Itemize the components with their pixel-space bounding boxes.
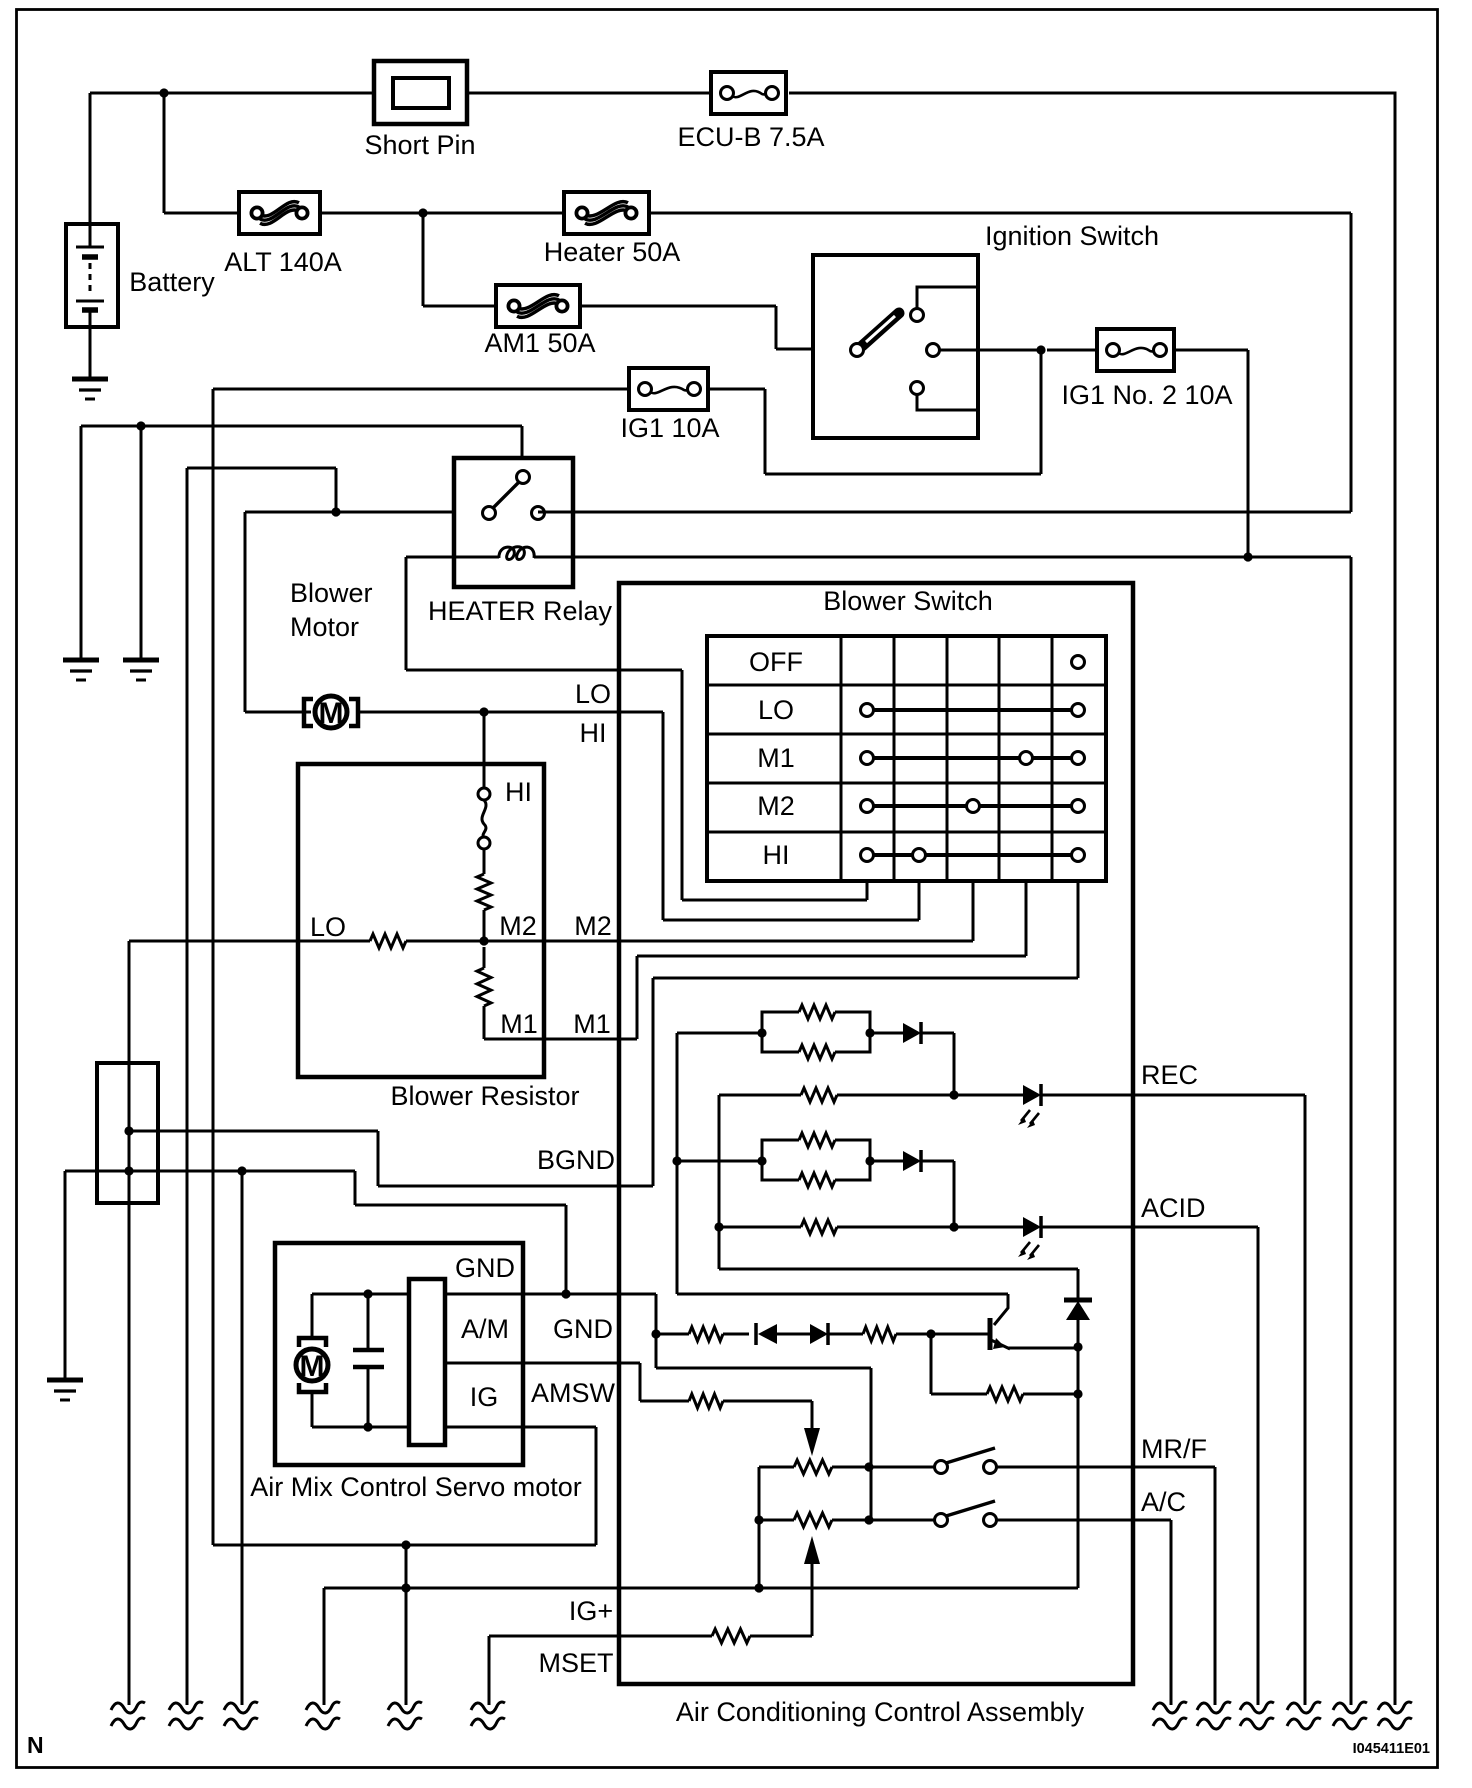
wire ignition output IG1 <box>1036 345 1045 354</box>
wire break REC <box>1287 1702 1321 1713</box>
svg-text:IG1 No. 2 10A: IG1 No. 2 10A <box>1061 380 1232 410</box>
servo internal wiring <box>312 1294 409 1427</box>
REC output row with resistor and LED <box>719 1095 1305 1705</box>
svg-text:GND: GND <box>455 1253 515 1283</box>
wire M2 row to switch column <box>484 940 973 943</box>
svg-text:OFF: OFF <box>749 647 803 677</box>
ground chassis left B <box>123 658 159 663</box>
resistor M2-M1 <box>483 947 486 968</box>
fuse AM1 50A <box>496 285 580 327</box>
wire break ground bus <box>224 1702 258 1713</box>
potentiometer temp set <box>794 1513 832 1527</box>
svg-text:M2: M2 <box>574 911 612 941</box>
svg-text:Air Mix Control Servo motor: Air Mix Control Servo motor <box>250 1472 582 1502</box>
base-emitter resistor <box>931 1334 1078 1394</box>
svg-text:Battery: Battery <box>129 267 215 297</box>
svg-text:Motor: Motor <box>290 612 359 642</box>
ACID resistor pair <box>677 1160 762 1163</box>
svg-text:HEATER Relay: HEATER Relay <box>428 596 613 626</box>
svg-text:M: M <box>300 1350 325 1383</box>
svg-text:I045411E01: I045411E01 <box>1353 1741 1430 1757</box>
ground chassis left A <box>63 658 99 663</box>
wire IG1 No.2 output to heater relay coil <box>1174 350 1248 558</box>
switch column stubs and staircase wires <box>682 881 867 900</box>
wire break MR/F <box>1197 1702 1231 1713</box>
GND diode chain to transistor base <box>656 1333 988 1336</box>
wire ground bus <box>65 1171 566 1705</box>
wire MSET row with resistor <box>489 1636 812 1705</box>
capacitor C1 <box>367 1294 370 1427</box>
wire break ACID <box>1240 1702 1274 1713</box>
svg-text:Blower Resistor: Blower Resistor <box>390 1081 579 1111</box>
servo connector <box>409 1279 445 1445</box>
wire servo A/M to AMSW <box>445 1363 640 1401</box>
svg-text:AMSW: AMSW <box>531 1378 616 1408</box>
wire BGND <box>129 1131 653 1186</box>
wire break ECU-B line <box>1378 1702 1412 1713</box>
fuse IG1 10A loop <box>213 350 1041 474</box>
wire break LO/ground splice <box>111 1702 145 1713</box>
wire break relay feed <box>169 1702 203 1713</box>
switch MR/F <box>946 1448 995 1463</box>
wire servo GND out <box>445 1294 656 1334</box>
ACID output row with resistor and LED <box>719 1227 1258 1705</box>
fuse ECU-B 7.5A <box>711 72 786 114</box>
fuse ALT 140A <box>239 192 320 234</box>
wire M1 row <box>484 1006 637 1039</box>
battery <box>66 93 118 379</box>
svg-text:MSET: MSET <box>538 1648 613 1678</box>
wire servo IG out <box>445 1427 596 1545</box>
svg-text:M1: M1 <box>573 1009 611 1039</box>
ignition switch U1 <box>813 255 1041 438</box>
svg-text:A/C: A/C <box>1141 1487 1186 1517</box>
potentiometer air mix <box>794 1460 832 1474</box>
svg-text:AM1 50A: AM1 50A <box>484 328 595 358</box>
svg-text:ALT 140A: ALT 140A <box>224 247 342 277</box>
svg-text:IG: IG <box>470 1382 499 1412</box>
wire IG1 10A to servo IG <box>212 389 215 1545</box>
svg-text:LO: LO <box>575 679 611 709</box>
wire relay coil to IG1No2 node and down <box>573 557 1351 1705</box>
heater relay K1 <box>406 458 573 587</box>
svg-text:HI: HI <box>505 777 532 807</box>
resistor LO arm <box>129 940 484 943</box>
svg-text:Short Pin: Short Pin <box>364 130 475 160</box>
wire ECU-B output down right side <box>789 93 1395 1705</box>
wire IG feed row <box>213 1545 596 1705</box>
fuse IG1 No. 2 10A <box>1097 329 1174 371</box>
wire break IG feed <box>388 1702 422 1713</box>
ground chassis lower left <box>47 1378 83 1383</box>
svg-text:M2: M2 <box>499 911 537 941</box>
svg-text:Air Conditioning Control Assem: Air Conditioning Control Assembly <box>676 1697 1085 1727</box>
fuse IG1 10A <box>629 368 708 410</box>
wire REC column to ACID row and zener feed <box>719 1095 1078 1300</box>
svg-text:Blower Switch: Blower Switch <box>823 586 993 616</box>
svg-text:IG1 10A: IG1 10A <box>620 413 719 443</box>
wire AM1 branch <box>423 213 857 349</box>
svg-text:IG+: IG+ <box>569 1596 613 1626</box>
svg-text:ECU-B 7.5A: ECU-B 7.5A <box>677 122 824 152</box>
switch A/C <box>946 1501 995 1516</box>
relay coil <box>406 556 573 559</box>
short pin <box>374 61 467 124</box>
ground battery <box>72 377 108 382</box>
thermal fuse HI input <box>482 800 486 838</box>
air conditioning control assembly box <box>619 583 1133 1684</box>
AMSW resistor to pot wiper <box>640 1401 812 1430</box>
svg-text:ACID: ACID <box>1141 1193 1206 1223</box>
svg-text:M1: M1 <box>757 743 795 773</box>
svg-text:MR/F: MR/F <box>1141 1434 1207 1464</box>
svg-text:M1: M1 <box>500 1009 538 1039</box>
zener diode <box>1064 1298 1092 1303</box>
air mix control servo motor box <box>275 1243 523 1465</box>
svg-text:HI: HI <box>580 718 607 748</box>
wire battery positive to short pin and ECU-B <box>90 92 711 95</box>
svg-text:A/M: A/M <box>461 1314 509 1344</box>
node junction battery/ALT <box>163 93 166 213</box>
svg-text:GND: GND <box>553 1314 613 1344</box>
wire LO drop to ground splice <box>128 941 131 1705</box>
svg-text:BGND: BGND <box>537 1145 615 1175</box>
wire break IG+ <box>306 1702 340 1713</box>
svg-text:Heater 50A: Heater 50A <box>544 237 681 267</box>
wire motor to LO and resistor HI <box>360 712 663 920</box>
wire break relay coil line <box>1333 1702 1367 1713</box>
MSET arrow into pot <box>811 1562 814 1636</box>
svg-text:REC: REC <box>1141 1060 1198 1090</box>
wire relay feed with chassis grounds <box>81 426 522 660</box>
wire relay coil left leg into control assembly <box>406 557 682 900</box>
switch row bridges <box>867 710 1078 855</box>
wire break A/C <box>1153 1702 1187 1713</box>
svg-text:LO: LO <box>758 695 794 725</box>
wire IG+ row <box>324 1588 1078 1705</box>
node common feed for indicator network <box>677 1033 1008 1325</box>
transistor Q1 <box>988 1318 993 1350</box>
wire relay output to blower motor <box>187 468 489 1705</box>
diode REC <box>870 1033 954 1095</box>
svg-text:HI: HI <box>763 840 790 870</box>
blower motor M1 <box>304 696 358 730</box>
svg-text:LO: LO <box>310 912 346 942</box>
connector J1 <box>97 1063 158 1203</box>
svg-text:N: N <box>27 1732 44 1758</box>
resistor HI-M2 <box>483 849 486 874</box>
blower resistor box <box>298 764 544 1077</box>
svg-text:Blower: Blower <box>290 578 373 608</box>
wire ALT row <box>164 213 1351 512</box>
svg-text:Ignition Switch: Ignition Switch <box>985 221 1159 251</box>
servo motor M2 <box>296 1338 328 1392</box>
wire GND bias to pots <box>656 1334 871 1520</box>
fuse Heater 50A <box>564 192 649 234</box>
wire break MSET <box>471 1702 505 1713</box>
blower switch table <box>707 636 1106 881</box>
svg-text:M2: M2 <box>757 791 795 821</box>
switch contacts <box>1072 656 1085 669</box>
svg-text:M: M <box>319 697 344 730</box>
REC resistor pair <box>677 1032 762 1035</box>
diode ACID <box>870 1161 954 1227</box>
wire relay switch to heater fuse drop <box>538 511 1351 514</box>
